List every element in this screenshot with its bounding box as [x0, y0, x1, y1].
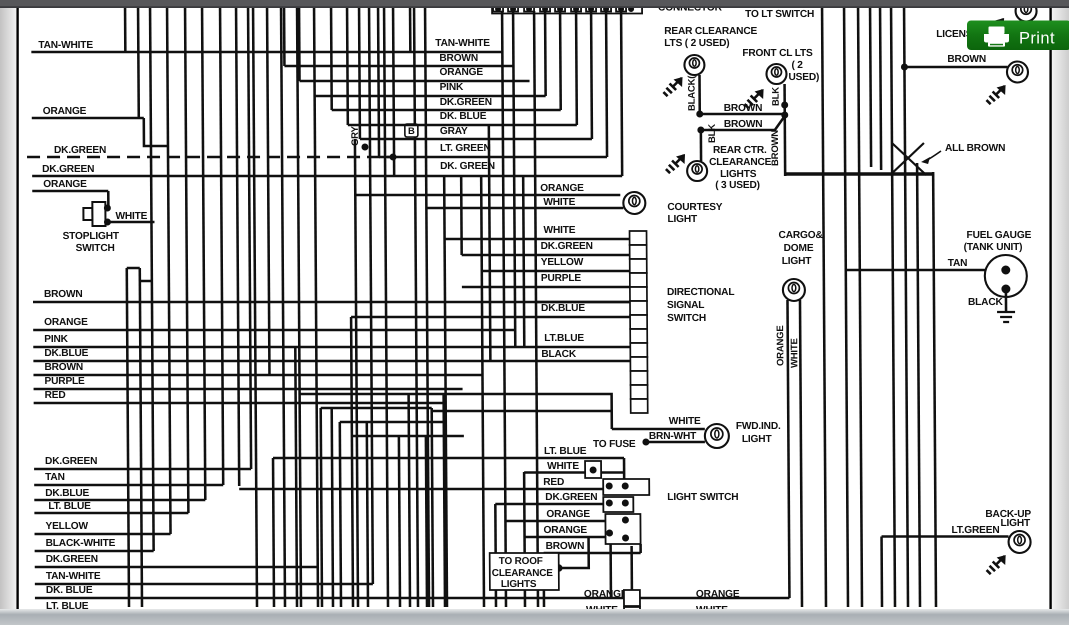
wire — [502, 11, 506, 607]
wire — [127, 268, 129, 607]
svg-text:BLK: BLK — [771, 87, 782, 106]
svg-text:CARGO&: CARGO& — [779, 230, 824, 241]
wire PINK — [315, 95, 546, 98]
wire BROWN — [284, 65, 513, 68]
svg-text:PINK: PINK — [44, 334, 68, 345]
wire LT.GREEN — [882, 535, 1009, 538]
wire — [575, 11, 578, 125]
light switch terminal dot — [622, 500, 629, 507]
svg-text:WHITE: WHITE — [669, 416, 701, 427]
svg-text:DK.GREEN: DK.GREEN — [42, 164, 94, 175]
svg-text:ORANGE: ORANGE — [43, 106, 87, 117]
svg-text:LIGHT: LIGHT — [1000, 518, 1031, 529]
svg-text:( 3 USED): ( 3 USED) — [715, 180, 760, 191]
svg-text:WHITE: WHITE — [543, 197, 575, 208]
junction — [590, 467, 597, 474]
wire — [534, 11, 538, 607]
svg-text:DK.GREEN: DK.GREEN — [54, 145, 106, 156]
fuel gauge (tank unit) — [985, 255, 1027, 297]
wire — [220, 8, 223, 485]
ground — [985, 18, 1004, 37]
wire WHITE — [445, 238, 630, 241]
wire PINK — [33, 346, 630, 349]
svg-text:REAR CLEARANCE: REAR CLEARANCE — [664, 26, 757, 37]
right gray margin — [1052, 0, 1069, 625]
wire — [432, 408, 433, 607]
arrow to junction — [927, 151, 941, 160]
svg-text:WHITE: WHITE — [547, 461, 579, 472]
svg-text:BRN-WHT: BRN-WHT — [649, 431, 697, 442]
svg-text:LT. BLUE: LT. BLUE — [544, 446, 587, 457]
terminal — [1001, 266, 1010, 275]
svg-text:TO ROOF: TO ROOF — [499, 556, 543, 567]
wire — [202, 8, 205, 500]
svg-text:SWITCH: SWITCH — [76, 243, 115, 254]
terminal — [1001, 285, 1010, 294]
wire — [891, 8, 895, 607]
svg-text:(TANK UNIT): (TANK UNIT) — [964, 242, 1023, 253]
wire DK.GREEN — [35, 566, 318, 569]
lamp fwd ind light — [705, 424, 729, 448]
top toolbar — [0, 0, 1069, 7]
wire — [639, 544, 642, 553]
svg-text:GRY: GRY — [350, 126, 361, 146]
wire — [300, 394, 612, 429]
left gray margin — [0, 0, 16, 625]
wire — [544, 11, 547, 96]
svg-text:LT. GREEN: LT. GREEN — [440, 143, 491, 154]
wire — [414, 8, 418, 607]
wire DK.BLUE — [34, 499, 205, 502]
junction — [390, 154, 397, 161]
light switch terminal dot — [622, 517, 629, 524]
svg-text:BLACK: BLACK — [968, 297, 1004, 308]
wire — [425, 8, 429, 607]
wire ORANGE — [355, 194, 620, 197]
svg-text:PURPLE: PURPLE — [44, 376, 85, 387]
ground — [986, 85, 1005, 104]
wire — [513, 11, 515, 347]
svg-text:CLEARANCE: CLEARANCE — [709, 157, 772, 168]
wire BROWN — [700, 113, 785, 116]
wire — [844, 8, 848, 607]
lamp cargo dome — [783, 279, 805, 301]
all brown junction — [890, 143, 926, 175]
lamp courtesy light — [623, 192, 645, 214]
svg-text:BROWN: BROWN — [724, 119, 763, 130]
wire — [460, 176, 463, 255]
svg-text:ORANGE: ORANGE — [43, 179, 87, 190]
svg-text:ORANGE: ORANGE — [584, 589, 628, 600]
svg-text:LT.GREEN: LT.GREEN — [951, 525, 999, 536]
wire WHITE — [426, 207, 623, 210]
wire — [800, 300, 802, 607]
junction — [696, 111, 703, 118]
wire TAN-WHITE — [35, 583, 373, 586]
connector label B — [405, 124, 418, 137]
light switch terminal — [585, 461, 601, 478]
lamp front clearance — [766, 64, 786, 84]
svg-text:PINK: PINK — [440, 82, 464, 93]
wire DK.GREEN — [332, 109, 561, 112]
wire ORANGE — [640, 597, 790, 600]
svg-text:TAN: TAN — [948, 258, 968, 269]
svg-text:LT.BLUE: LT.BLUE — [544, 333, 584, 344]
wire GRAY — [360, 138, 592, 141]
to roof clearance lights box — [490, 553, 559, 590]
svg-text:DK. BLUE: DK. BLUE — [46, 585, 93, 596]
svg-text:COURTESY: COURTESY — [667, 202, 722, 213]
wire — [346, 8, 349, 125]
svg-text:DK. BLUE: DK. BLUE — [440, 111, 487, 122]
light switch body — [603, 479, 649, 495]
svg-text:LT. BLUE: LT. BLUE — [48, 501, 91, 512]
junction — [781, 102, 788, 109]
svg-text:ORANGE: ORANGE — [775, 326, 786, 366]
svg-text:TAN-WHITE: TAN-WHITE — [46, 571, 101, 582]
svg-text:Print: Print — [1019, 30, 1055, 48]
junction — [901, 64, 908, 71]
wire TAN — [34, 484, 223, 487]
light switch terminal dot — [606, 483, 613, 490]
connector (top) — [492, 0, 642, 14]
wire LT.GREEN — [379, 156, 607, 159]
wire — [523, 176, 524, 347]
wire BROWN — [904, 66, 1007, 69]
junction — [781, 112, 788, 119]
wire bridge — [352, 435, 464, 438]
wire — [494, 504, 497, 607]
svg-text:FWD.IND.: FWD.IND. — [736, 421, 781, 432]
svg-text:DK.GREEN: DK.GREEN — [541, 241, 593, 252]
svg-text:WHITE: WHITE — [789, 338, 800, 368]
svg-text:BLACK-WHITE: BLACK-WHITE — [46, 538, 116, 549]
junction — [697, 127, 704, 134]
wire LT. BLUE — [273, 457, 624, 460]
wire TAN — [846, 269, 1002, 272]
wire brown bus — [785, 172, 933, 175]
wire step — [127, 267, 140, 270]
svg-text:LIGHT SWITCH: LIGHT SWITCH — [667, 492, 738, 503]
wire — [236, 8, 239, 486]
wire BROWN — [537, 301, 630, 304]
wire — [140, 268, 142, 607]
light switch terminal dot — [606, 530, 613, 537]
wire — [590, 11, 593, 139]
ground — [663, 77, 682, 96]
svg-text:BROWN: BROWN — [44, 289, 83, 300]
wire — [384, 8, 388, 607]
light switch terminal dot — [622, 483, 629, 490]
wire — [351, 317, 353, 607]
svg-text:LIGHT: LIGHT — [782, 256, 813, 267]
wire DK.GREEN — [34, 468, 251, 471]
wire BROWN — [544, 552, 641, 555]
svg-text:LTS ( 2 USED): LTS ( 2 USED) — [664, 38, 729, 49]
svg-text:DK. GREEN: DK. GREEN — [440, 161, 495, 172]
wire ORANGE — [33, 329, 515, 332]
wire — [409, 8, 412, 52]
wire TAN-WHITE — [31, 51, 502, 54]
wire — [248, 8, 251, 469]
wire PURPLE — [34, 388, 463, 391]
svg-text:TO LT SWITCH: TO LT SWITCH — [745, 9, 814, 20]
print button — [967, 21, 1069, 51]
wire ORANGE — [300, 80, 530, 83]
svg-text:BROWN: BROWN — [439, 53, 478, 64]
junction — [104, 205, 111, 212]
svg-text:ORANGE: ORANGE — [543, 525, 587, 536]
wire — [124, 8, 127, 52]
svg-text:( 2: ( 2 — [791, 60, 803, 71]
wire — [542, 553, 545, 607]
wire — [1005, 289, 1008, 312]
svg-text:YELLOW: YELLOW — [45, 521, 88, 532]
wire WHITE — [640, 612, 702, 615]
wire — [330, 8, 333, 110]
svg-text:BLACK: BLACK — [541, 349, 577, 360]
wire RED — [34, 402, 446, 405]
svg-text:BROWN: BROWN — [44, 362, 83, 373]
wire — [609, 544, 612, 598]
wire YELLOW — [35, 533, 171, 536]
svg-text:WHITE: WHITE — [543, 225, 575, 236]
wire — [272, 458, 276, 607]
wire — [332, 408, 333, 607]
wire — [822, 8, 826, 607]
wire — [253, 8, 257, 607]
wire — [559, 537, 589, 568]
svg-text:WHITE: WHITE — [115, 211, 147, 222]
svg-text:DK.BLUE: DK.BLUE — [45, 488, 89, 499]
wire YELLOW — [482, 270, 630, 273]
svg-text:DK.GREEN: DK.GREEN — [545, 492, 597, 503]
wire — [700, 130, 703, 161]
wire — [432, 410, 612, 413]
wire — [621, 11, 622, 176]
wire BROWN — [33, 374, 482, 377]
wire — [904, 8, 908, 607]
svg-text:CLEARANCE: CLEARANCE — [492, 568, 554, 579]
wire ORANGE — [505, 520, 632, 523]
wire DK.GREEN — [462, 254, 630, 257]
wire DK. BLUE — [35, 597, 624, 600]
wire DK.BLUE — [351, 316, 630, 319]
wire ORANGE — [32, 117, 144, 120]
wire — [314, 8, 318, 607]
junction — [642, 439, 649, 446]
svg-text:STOPLIGHT: STOPLIGHT — [63, 231, 120, 242]
wire DK.GREEN — [32, 175, 622, 178]
light switch body — [603, 497, 633, 512]
wire — [858, 8, 862, 607]
lamp license — [1007, 62, 1028, 83]
svg-text:LIGHT: LIGHT — [667, 214, 698, 225]
wire — [369, 8, 373, 584]
wire BROWN — [701, 116, 785, 130]
wire step — [140, 280, 152, 283]
wire — [281, 8, 285, 607]
svg-text:RED: RED — [45, 390, 66, 401]
wire — [698, 75, 701, 114]
wire — [559, 11, 562, 110]
wire — [399, 436, 400, 607]
wire RED — [239, 488, 603, 491]
wire bridge — [340, 421, 447, 424]
wire — [297, 8, 301, 607]
svg-text:BROWN: BROWN — [947, 54, 986, 65]
wire — [481, 176, 484, 607]
lamp rear clearance — [684, 55, 704, 75]
wire — [298, 8, 301, 81]
wire — [340, 422, 341, 607]
right page border — [1049, 0, 1051, 609]
ground — [744, 89, 763, 108]
wire BROWN — [33, 301, 630, 304]
wire — [917, 163, 920, 607]
wire — [489, 125, 491, 361]
wire — [630, 546, 633, 590]
svg-text:RED: RED — [543, 477, 564, 488]
wire ORANGE — [525, 536, 610, 539]
svg-text:DIRECTIONAL: DIRECTIONAL — [667, 287, 734, 298]
svg-text:LIGHTS: LIGHTS — [720, 169, 757, 180]
svg-text:ORANGE: ORANGE — [540, 183, 584, 194]
wire — [623, 458, 626, 480]
connector box — [624, 590, 640, 606]
wire LT. BLUE — [35, 612, 624, 615]
svg-text:DOME: DOME — [784, 243, 814, 254]
svg-text:ORANGE: ORANGE — [546, 509, 590, 520]
wire WHITE — [524, 471, 624, 474]
wire DK. BLUE — [348, 124, 577, 127]
wire — [150, 8, 154, 551]
wire — [355, 139, 358, 607]
wire — [367, 422, 368, 607]
wire — [880, 8, 881, 170]
wire — [167, 8, 170, 534]
wire step — [144, 118, 168, 146]
wire WHITE — [612, 428, 705, 431]
light switch terminal dot — [606, 500, 613, 507]
svg-text:SIGNAL: SIGNAL — [667, 300, 704, 311]
wire — [321, 408, 322, 607]
wire — [358, 8, 361, 139]
lamp (partial top) — [1016, 1, 1037, 22]
svg-text:FUEL GAUGE: FUEL GAUGE — [967, 230, 1032, 241]
svg-text:GRAY: GRAY — [440, 126, 468, 137]
junction — [104, 219, 111, 226]
ground — [986, 555, 1005, 574]
wire LT. BLUE — [34, 512, 188, 515]
svg-text:TAN-WHITE: TAN-WHITE — [38, 40, 93, 51]
wire BLACK-WHITE — [35, 550, 154, 553]
svg-text:BROWN: BROWN — [724, 103, 763, 114]
svg-text:B: B — [408, 126, 415, 137]
svg-text:LIGHTS: LIGHTS — [501, 579, 537, 590]
wire ORANGE — [32, 190, 108, 193]
svg-text:ORANGE: ORANGE — [439, 67, 483, 78]
svg-text:DK.GREEN: DK.GREEN — [45, 456, 97, 467]
wire — [933, 172, 936, 607]
svg-text:REAR CTR.: REAR CTR. — [713, 145, 767, 156]
wire — [444, 394, 445, 607]
svg-text:BLACK(: BLACK( — [686, 75, 697, 111]
svg-text:SWITCH: SWITCH — [667, 313, 706, 324]
wire — [393, 8, 394, 176]
wire — [185, 8, 188, 513]
stoplight switch — [83, 202, 105, 226]
ground — [997, 312, 1015, 322]
left page border — [16, 0, 18, 609]
lamp rear center clearance — [687, 161, 707, 181]
wire — [787, 300, 789, 598]
wire — [605, 11, 609, 157]
junction — [361, 144, 368, 151]
wire — [295, 347, 297, 607]
printer icon — [984, 27, 1009, 47]
junction — [555, 564, 563, 572]
wire — [283, 8, 286, 66]
svg-text:DK.GREEN: DK.GREEN — [46, 554, 98, 565]
svg-text:DK.BLUE: DK.BLUE — [541, 303, 585, 314]
wire bridge — [321, 407, 432, 410]
svg-text:TO FUSE: TO FUSE — [593, 439, 636, 450]
svg-text:DK.GREEN: DK.GREEN — [440, 97, 492, 108]
ground — [666, 154, 685, 173]
svg-text:BROWN: BROWN — [770, 130, 781, 166]
svg-text:TAN: TAN — [45, 472, 65, 483]
svg-text:TAN-WHITE: TAN-WHITE — [435, 38, 490, 49]
wire — [107, 191, 110, 208]
connector box — [624, 607, 640, 621]
wire — [409, 394, 410, 607]
svg-text:USED): USED) — [788, 72, 819, 83]
wire — [783, 84, 786, 176]
wire DK.GREEN — [495, 503, 603, 506]
light switch terminal dot — [622, 535, 629, 542]
bottom scrollbar — [0, 609, 1069, 625]
svg-text:BLK: BLK — [707, 124, 718, 143]
svg-text:YELLOW: YELLOW — [541, 257, 584, 268]
wire DK.GREEN dashed — [27, 156, 393, 159]
svg-text:BROWN: BROWN — [546, 541, 585, 552]
svg-text:FRONT CL LTS: FRONT CL LTS — [742, 48, 813, 59]
wire — [870, 8, 871, 167]
svg-text:ORANGE: ORANGE — [44, 317, 88, 328]
lamp back-up — [1009, 531, 1031, 553]
wire — [267, 8, 269, 375]
svg-text:ALL BROWN: ALL BROWN — [945, 143, 1005, 154]
svg-text:LIGHT: LIGHT — [742, 434, 773, 445]
light switch body — [605, 514, 640, 544]
directional signal switch contacts — [630, 231, 648, 413]
wire — [426, 436, 427, 607]
wire WHITE — [107, 221, 154, 224]
wire PURPLE — [462, 286, 630, 289]
svg-text:DK.BLUE: DK.BLUE — [44, 348, 88, 359]
wire — [137, 8, 140, 118]
wire — [444, 176, 447, 607]
wire DK.BLUE — [33, 360, 630, 363]
wire — [523, 472, 526, 607]
wire BRN-WHT — [649, 441, 705, 444]
svg-text:PURPLE: PURPLE — [541, 273, 582, 284]
wire — [880, 537, 883, 608]
wire — [377, 8, 381, 157]
